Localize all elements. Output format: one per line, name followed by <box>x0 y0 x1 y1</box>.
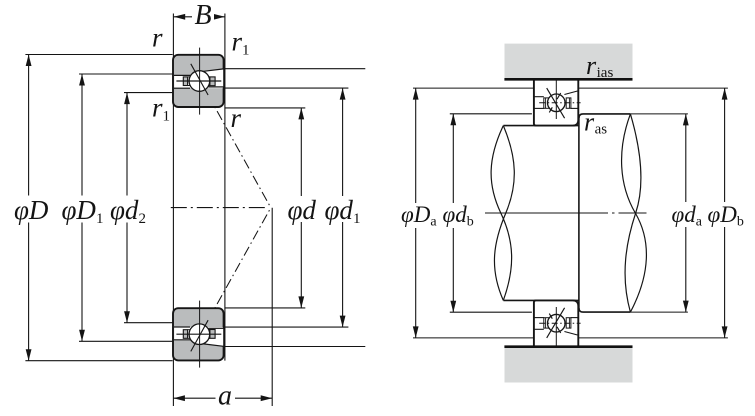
a dimension line <box>173 397 272 399</box>
label a <box>216 386 236 408</box>
housing block bottom <box>505 347 633 382</box>
label phid1 <box>323 196 361 222</box>
housing bore line top <box>504 78 632 81</box>
label phid <box>286 196 316 222</box>
bearing section top <box>173 48 224 115</box>
phid2 extension top <box>124 92 173 94</box>
counterbore reference line top <box>224 68 365 70</box>
label phida <box>670 202 704 227</box>
phiDa extension top <box>413 87 534 89</box>
bearing section top <box>534 79 581 125</box>
phiD dimension line <box>28 55 30 361</box>
phiDa dimension line <box>415 88 417 338</box>
label phiD1 <box>60 196 103 223</box>
shaft seat line top <box>503 125 579 127</box>
shaft break right <box>622 114 647 312</box>
shaft step face <box>578 115 580 312</box>
right face / B-extension line <box>224 14 226 361</box>
phid1 dimension line <box>342 88 344 327</box>
svg-text:B: B <box>194 0 211 31</box>
phidb dimension line <box>452 114 454 312</box>
phiD1 dimension line <box>81 74 83 341</box>
shaft seat line bottom <box>503 299 579 301</box>
phid2 extension bottom <box>124 322 173 324</box>
phiDb extension top <box>579 87 728 89</box>
phiD1 extension bottom <box>79 340 173 342</box>
phiDb extension bottom <box>579 337 728 339</box>
contact line dash-dot top <box>208 95 271 208</box>
axis centerline right view <box>485 212 650 214</box>
contact line dash-dot bottom <box>208 208 271 321</box>
left face / B-extension / a-extension line <box>172 14 174 407</box>
phidb extension bottom <box>450 311 532 313</box>
phiD extension bottom <box>25 360 172 362</box>
B dimension line <box>174 16 225 18</box>
phid1 extension bottom <box>225 326 349 328</box>
counterbore reference line bottom <box>224 346 365 348</box>
housing block top <box>505 44 633 79</box>
bearing section bottom (mirrored) <box>534 300 581 346</box>
housing bore line bottom <box>504 345 632 348</box>
phida extension bottom <box>630 311 688 313</box>
a dimension extension right <box>271 208 273 406</box>
shaft break left <box>491 126 512 301</box>
phida extension top <box>630 113 688 115</box>
axis centerline left view <box>171 207 269 209</box>
shaft abutment surface bottom <box>579 308 631 312</box>
label phiD <box>14 196 48 223</box>
bearing section bottom (mirrored) <box>173 301 224 368</box>
label phiDa <box>400 203 437 228</box>
phiDb dimension line <box>724 88 726 338</box>
svg-text:φd: φd <box>288 195 317 225</box>
phid dimension line <box>300 108 302 308</box>
svg-text:a: a <box>218 381 232 412</box>
phid1 extension top <box>225 87 349 89</box>
svg-text:r: r <box>152 23 163 53</box>
label phidb <box>441 203 473 228</box>
svg-text:r: r <box>231 103 242 133</box>
phid2 dimension line <box>126 93 128 323</box>
svg-text:φD: φD <box>14 195 49 225</box>
phiD extension top <box>25 54 172 56</box>
phida dimension line <box>685 114 687 312</box>
label phiDb <box>706 202 743 227</box>
phiD1 extension top <box>79 73 173 75</box>
label phid2 <box>109 196 147 223</box>
phid extension bottom <box>225 307 305 309</box>
label B <box>192 3 214 27</box>
shaft abutment surface top <box>579 114 631 118</box>
phid extension top <box>225 107 305 109</box>
phidb extension top <box>450 113 532 115</box>
phiDa extension bottom <box>413 337 534 339</box>
